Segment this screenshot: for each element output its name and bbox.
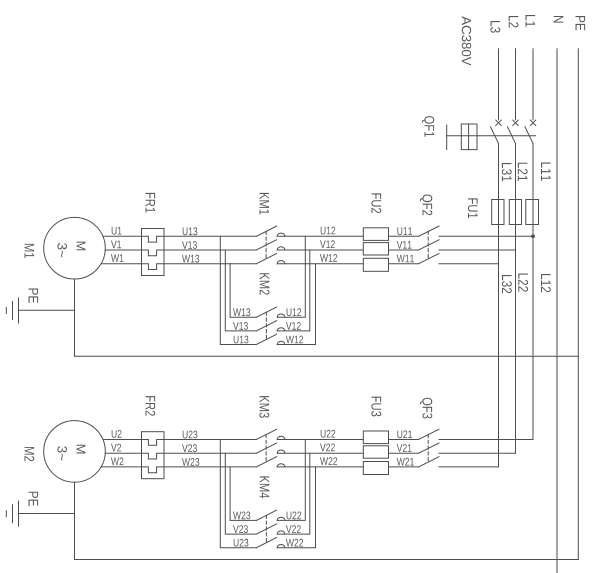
label V13 [233,322,248,330]
wire V23 [164,452,256,454]
label U13 [234,336,249,344]
motor M1 circle [44,217,106,279]
wire V23 riser [225,453,256,534]
wire motor lead W2 [101,466,141,468]
label W12 [320,254,337,262]
wire V13 riser [225,250,256,331]
label V22 [320,444,335,452]
contactor KM1 pole arc at y=250 [277,247,285,250]
contactor KM4 pole arc at y=520 [277,517,285,520]
wire KM3 output at y=467 [277,466,363,468]
breaker QF3 pole blade at y=440 [419,429,439,439]
fuse FU3 element at y=467 [363,462,388,475]
net label L32 [502,275,512,293]
wire V13 [164,249,256,251]
fuse FU1 element 3 body [526,200,539,225]
ground symbol branch 2 [18,501,20,526]
thermal relay FR1 label [146,193,156,213]
ground symbol branch 1 [18,298,20,323]
thermal relay FR1 element at y=236 [142,236,165,242]
breaker QF1 pole L3 contact x-mark [496,120,502,126]
wire W23 [164,466,256,468]
label U23 [183,431,198,439]
thermal relay FR2 label [146,396,156,416]
contactor KM1 pole blade at y=264 [256,254,276,264]
breaker QF3 label [420,398,432,419]
contactor KM3 pole arc at y=453 [277,450,285,453]
contactor KM3 pole arc at y=440 [277,436,285,439]
contactor KM2 pole blade at y=344 [256,334,276,344]
wire U21 to L1 bus [439,439,533,441]
label V12 [320,240,335,248]
wire L3 incoming [498,49,500,120]
wire fuse to breaker at y=453 [389,452,419,454]
contactor KM3 pole arc at y=467 [277,464,285,467]
wire U23 [164,439,256,441]
label W23 [233,512,250,520]
contactor KM1 pole arc at y=264 [277,261,285,264]
label U2 [112,430,122,438]
fuse FU3 element at y=453 [363,446,388,458]
label U12 [287,308,302,316]
label U23 [234,539,249,547]
thermal relay FR2 element at y=453 [142,453,165,459]
breaker QF1 pole L2 blade [508,127,516,144]
breaker QF3 linkage [427,434,429,461]
wire KM4 output W22 riser [277,467,315,548]
label V2 [111,444,121,452]
label U22 [321,430,336,438]
net label L11 [541,163,551,181]
wire motor lead V2 [105,452,141,454]
net label N [554,16,564,23]
wire U11 to L1 bus [439,235,533,237]
wire KM3 output at y=440 [277,439,363,441]
breaker QF1 linkage bar [447,135,536,137]
label W22 [320,457,337,465]
contactor KM3 pole blade at y=453 [256,443,276,453]
thermal relay FR2 element at y=440 [142,440,165,446]
net label L12 [541,274,551,292]
contactor KM4 pole blade at y=520 [256,510,276,520]
breaker QF1 label [422,116,434,137]
contactor KM1 label [260,193,270,215]
contactor KM4 pole arc at y=548 [277,545,285,548]
label U13 [183,227,198,235]
ground PE label branch 1 [29,289,39,303]
wire KM2 output V12 riser [277,250,310,331]
wire W23 riser [230,467,256,521]
label W13 [233,308,250,316]
contactor KM1 linkage [265,231,267,258]
breaker QF2 pole blade at y=264 [419,254,439,264]
label V23 [182,444,197,452]
wire PE ground branch 1 [19,309,75,311]
breaker QF2 pole blade at y=236 [419,226,439,236]
label W13 [182,255,199,263]
wire N bus vertical [556,49,558,573]
contactor KM1 pole blade at y=236 [256,226,276,236]
thermal relay FR2 element at y=467 [142,467,165,473]
wire KM1 output at y=264 [277,263,363,265]
breaker QF1 actuator box [461,124,477,150]
wire L21-L22 vertical [515,144,517,454]
wire W11 to L3 bus [439,263,499,265]
wire V11 to L2 bus [439,249,516,251]
contactor KM2 linkage [265,312,267,339]
label W12 [286,336,303,344]
label W23 [182,458,199,466]
label V13 [182,241,197,249]
wire KM4 output V22 riser [277,453,310,534]
wire motor lead V1 [105,249,141,251]
contactor KM3 linkage [265,434,267,461]
net label L21 [518,163,528,181]
motor M1 text M [77,242,86,251]
ground PE label branch 2 [29,492,39,506]
breaker QF1 pole L3 blade [491,127,499,144]
breaker QF1 pole L1 contact x-mark [530,120,536,126]
breaker QF1 pole L1 blade [525,127,533,144]
label W22 [286,539,303,547]
fuse FU3 label [371,397,381,417]
label V23 [233,525,248,533]
fuse FU1 element 2 body [509,200,521,225]
net label L31 [502,163,512,181]
breaker QF2 linkage [427,231,429,258]
wire U23 riser [220,440,256,548]
net label L22 [518,274,528,292]
breaker QF3 pole blade at y=453 [419,443,439,453]
wire W13 riser [230,264,256,318]
wire KM4 output U22 riser [277,440,305,521]
label W11 [397,255,414,263]
breaker QF2 label [420,195,432,216]
wire KM3 output at y=453 [277,452,363,454]
wire KM1 output at y=236 [277,235,363,237]
wire fuse to breaker at y=264 [389,263,419,265]
wire fuse to breaker at y=236 [389,235,419,237]
fuse FU1 element 1 body [492,200,504,225]
wire U13 riser [220,236,256,344]
wire W13 [164,263,256,265]
contactor KM2 pole arc at y=331 [277,328,285,331]
thermal relay FR1 box [142,229,165,276]
wire fuse to breaker at y=250 [389,249,419,251]
motor M2 circle [44,421,106,483]
wire motor lead W1 [101,263,141,265]
junction dot U11/L11 [531,234,535,238]
contactor KM1 pole arc at y=236 [277,233,285,236]
breaker QF3 pole blade at y=467 [419,457,439,467]
wire V21 to L2 bus [439,452,516,454]
thermal relay FR1 element at y=250 [142,250,165,256]
contactor KM1 pole blade at y=250 [256,240,276,250]
contactor KM4 pole arc at y=534 [277,531,285,534]
breaker QF1 handle [446,125,448,149]
wire fuse to breaker at y=467 [389,466,419,468]
label U11 [397,227,412,235]
label V12 [286,322,301,330]
label V21 [397,444,412,452]
fuse FU3 element at y=440 [363,431,388,444]
contactor KM3 pole blade at y=440 [256,429,276,439]
label W21 [397,458,414,466]
source label AC380V [462,16,472,65]
wire motor M1 stem [74,279,76,356]
contactor KM2 pole blade at y=317 [256,307,276,317]
fuse FU2 label [371,193,381,213]
wire PE ground branch 2 [19,513,75,515]
wire KM2 output U12 riser [277,236,305,317]
contactor KM2 pole blade at y=331 [256,321,276,331]
contactor KM3 pole blade at y=467 [256,457,276,467]
net label L2 [509,16,519,28]
breaker QF2 pole blade at y=250 [419,240,439,250]
label U12 [321,227,336,235]
contactor KM4 pole blade at y=534 [256,524,276,534]
label V22 [286,525,301,533]
label U1 [112,227,122,235]
wire KM2 output W12 riser [277,264,315,345]
net label PE [576,16,586,30]
thermal relay FR1 element at y=264 [142,264,165,270]
wire L2 incoming [515,49,517,120]
fuse FU2 element at y=250 [363,243,388,255]
contactor KM3 label [259,396,269,418]
contactor KM2 pole arc at y=344 [277,341,285,344]
contactor KM2 pole arc at y=317 [277,314,285,317]
wire W21 to L3 bus [439,466,499,468]
motor M2 text 3~ [57,446,67,460]
contactor KM4 linkage [265,515,267,542]
fuse FU1 label [468,198,478,218]
wire L31-L32 vertical [498,144,500,467]
wire PE rail branch 2 [75,559,579,561]
label V11 [397,241,412,249]
contactor KM2 label [260,273,270,295]
contactor KM4 label [260,476,270,498]
wire PE bus vertical [577,49,579,560]
wire KM1 output at y=250 [277,249,363,251]
wire motor M2 stem [74,482,76,559]
motor M1 text 3~ [57,243,67,257]
wire L11-L12 vertical [532,144,534,440]
wire L1 incoming [532,49,534,120]
wire U13 [164,235,256,237]
thermal relay FR2 box [142,432,165,479]
label W1 [111,254,124,262]
wire PE rail branch 1 [75,355,579,357]
fuse FU2 element at y=264 [363,258,388,271]
net label L1 [526,15,536,27]
label U21 [397,430,412,438]
motor M2 label [25,447,35,461]
wire motor lead U1 [103,235,142,237]
wire fuse to breaker at y=440 [389,439,419,441]
contactor KM4 pole blade at y=548 [256,538,276,548]
label W2 [111,457,123,465]
breaker QF1 pole L2 contact x-mark [513,120,519,126]
net label L3 [490,21,500,33]
fuse FU2 element at y=236 [363,228,388,241]
wire motor lead U2 [103,439,142,441]
motor M2 text M [77,445,86,454]
label U22 [287,512,302,520]
label V1 [111,241,121,249]
motor M1 label [25,244,35,258]
